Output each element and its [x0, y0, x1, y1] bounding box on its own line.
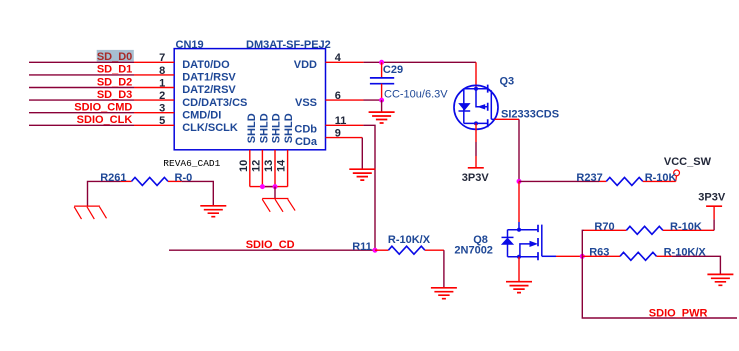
svg-text:13: 13: [263, 160, 275, 172]
svg-text:SDIO_CD: SDIO_CD: [246, 239, 295, 251]
resistor R237 right lead: [643, 180, 676, 182]
wire SDIO_CD: [169, 249, 375, 251]
transistor Q8 source arrow stub: [520, 244, 530, 257]
capacitor C29 top lead: [381, 62, 383, 78]
transistor Q3 gate lead: [491, 118, 494, 120]
svg-text:R11: R11: [352, 241, 372, 253]
transistor Q8 source arrowhead (points right): [530, 241, 539, 247]
wire stub to VCC_SW port: [675, 176, 678, 182]
svg-text:DAT1/RSV: DAT1/RSV: [182, 72, 236, 84]
ground (VSS/C29): [369, 112, 395, 123]
svg-text:VSS: VSS: [295, 97, 317, 109]
net label highlight box SD_D0: [97, 50, 134, 62]
svg-text:CLK/SCLK: CLK/SCLK: [182, 122, 238, 134]
transistor Q3 gate bar: [490, 90, 492, 119]
svg-text:DAT0/DO: DAT0/DO: [182, 59, 230, 71]
svg-text:REVA6_CAD1: REVA6_CAD1: [163, 158, 220, 169]
ground (Q8 source): [506, 282, 532, 293]
transistor Q8 body-diode branch: [507, 230, 509, 257]
wire Q3 gate down to node: [518, 119, 520, 181]
power symbol 3P3V bar (Q3): [468, 167, 484, 169]
svg-text:VCC_SW: VCC_SW: [664, 156, 712, 168]
wire R70 to 3P3V: [713, 219, 715, 230]
svg-text:Q3: Q3: [500, 76, 515, 88]
svg-text:R-10K: R-10K: [645, 172, 677, 184]
wire net SDIO_CLK: [29, 124, 134, 126]
transistor Q3 drain lead: [475, 62, 477, 89]
wire node to Q8 drain: [518, 181, 520, 222]
pin 2 stub: [134, 99, 174, 101]
wire SHLD join: [250, 186, 288, 188]
transistor Q8 channel segments: [537, 225, 539, 261]
wire SDIO_PWR: [582, 256, 737, 318]
resistor R11 right lead: [425, 249, 444, 251]
svg-text:10: 10: [238, 160, 250, 172]
transistor Q8 body diode cathode bar: [502, 236, 514, 238]
resistor R70 left lead: [584, 229, 626, 231]
transistor Q3 channel segments: [487, 85, 489, 128]
wire node to R237: [519, 180, 599, 182]
transistor Q3 gate pin stub: [495, 118, 520, 120]
transistor Q3 body diode cathode bar: [459, 110, 471, 112]
svg-text:SD_D3: SD_D3: [97, 89, 132, 101]
junction node SDIO_CD/R11: [373, 248, 378, 253]
transistor Q8 drain lead: [518, 222, 520, 230]
junction node SHLD pin12: [260, 184, 265, 189]
svg-text:CN19: CN19: [176, 39, 204, 51]
wire net SD_D0: [29, 61, 134, 63]
transistor Q3 body circle: [454, 85, 498, 129]
resistor R11 body: [388, 246, 425, 254]
transistor Q8 gate bar: [541, 225, 543, 257]
pin 7 stub: [134, 61, 174, 63]
wire R261 left to chassis ground: [88, 181, 121, 205]
pin 8 stub: [134, 74, 174, 76]
wire net SD_D2: [29, 87, 134, 89]
resistor R11 left lead: [375, 249, 388, 251]
pin 9 stub (CDa): [326, 137, 363, 139]
svg-text:R63: R63: [589, 247, 609, 259]
svg-text:CMD/DI: CMD/DI: [182, 109, 221, 121]
off-page connector circle VCC_SW: [674, 170, 680, 176]
transistor Q8 internal bottom node: [517, 255, 521, 259]
wire R63 right to ground: [672, 256, 720, 274]
transistor Q3 body diode (down): [458, 103, 470, 111]
pin 14 stub (SHLD): [287, 150, 289, 187]
wire Q3 source mid: [475, 142, 477, 156]
svg-text:R-10K: R-10K: [670, 221, 702, 233]
svg-text:3P3V: 3P3V: [698, 192, 726, 204]
connector CN19 body: [174, 49, 325, 150]
svg-text:CC-10u/6.3V: CC-10u/6.3V: [384, 89, 448, 101]
svg-text:12: 12: [250, 160, 262, 172]
ground (R-0): [200, 206, 226, 217]
svg-text:SHLD: SHLD: [246, 113, 258, 143]
junction node VSS/C29: [379, 98, 384, 103]
wire CDa to ground: [361, 138, 363, 170]
resistor R237 body: [606, 177, 642, 185]
svg-text:2N7002: 2N7002: [454, 244, 493, 256]
wire CDb to SDIO_CD node: [363, 125, 375, 250]
resistor R261 body: [132, 177, 169, 185]
pin 12 stub (SHLD): [261, 150, 263, 187]
pin 11 stub (CDb): [326, 124, 364, 126]
svg-text:SDIO_PWR: SDIO_PWR: [649, 307, 708, 319]
resistor R237 left lead: [599, 180, 606, 182]
wire SHLD to chassis ground: [274, 187, 276, 199]
resistor R70 body: [626, 226, 662, 234]
junction node Q8 gate / R63 / R70 / SDIO_PWR: [580, 254, 585, 259]
pin 13 stub (SHLD): [274, 150, 276, 187]
power symbol 3P3V lead (right): [713, 206, 715, 219]
junction node Q3 gate / Q8 drain / R237: [517, 179, 522, 184]
svg-text:3P3V: 3P3V: [462, 172, 490, 184]
resistor R261 right lead: [168, 180, 182, 182]
svg-text:CDa: CDa: [295, 136, 318, 148]
power symbol 3P3V lead (Q3): [475, 156, 477, 168]
ground (R63): [707, 274, 733, 285]
svg-text:R70: R70: [594, 221, 614, 233]
svg-text:SD_D1: SD_D1: [97, 64, 132, 76]
transistor Q3 internal top bar: [464, 88, 488, 90]
wire VDD net to Q3: [364, 61, 476, 63]
svg-text:SD_D0: SD_D0: [97, 51, 132, 63]
wire R11 right to ground: [443, 250, 445, 288]
svg-text:SHLD: SHLD: [283, 113, 295, 143]
transistor Q3 source lead to power: [475, 123, 477, 142]
svg-text:SI2333CDS: SI2333CDS: [501, 109, 559, 121]
transistor Q3 body-diode branch: [463, 89, 465, 124]
svg-text:DM3AT-SF-PEJ2: DM3AT-SF-PEJ2: [246, 39, 331, 51]
svg-text:SHLD: SHLD: [259, 113, 271, 143]
transistor Q8 internal top bar: [508, 229, 539, 231]
svg-text:R-0: R-0: [175, 172, 193, 184]
transistor Q3 internal bottom node: [474, 121, 478, 125]
svg-text:14: 14: [276, 159, 288, 172]
wire net SD_D1: [29, 74, 134, 76]
wire VSS to ground: [381, 100, 383, 112]
svg-text:CD/DAT3/CS: CD/DAT3/CS: [182, 97, 247, 109]
svg-text:R261: R261: [100, 172, 126, 184]
ground (R11): [431, 288, 457, 299]
pin 3 stub: [134, 112, 174, 114]
svg-text:SDIO_CMD: SDIO_CMD: [74, 102, 132, 114]
junction node SHLD pin13: [273, 184, 278, 189]
pin 10 stub (SHLD): [249, 150, 251, 187]
resistor R261 left lead: [121, 180, 132, 182]
transistor Q8 internal top node: [517, 228, 521, 232]
svg-text:SD_D2: SD_D2: [97, 76, 132, 88]
svg-text:SDIO_CLK: SDIO_CLK: [77, 114, 133, 126]
svg-text:R-10K/X: R-10K/X: [664, 247, 707, 259]
wire SHLD join middle: [262, 186, 275, 188]
svg-text:DAT2/RSV: DAT2/RSV: [182, 84, 236, 96]
wire R261 right to ground: [182, 181, 214, 205]
resistor R63 right lead: [657, 255, 673, 257]
svg-text:C29: C29: [383, 64, 403, 76]
wire node up to R70 row: [582, 230, 584, 256]
transistor Q8 body diode (up): [501, 238, 514, 245]
transistor Q8 gate lead: [542, 255, 556, 257]
transistor Q8 source lead to ground: [518, 257, 520, 282]
pin 6 stub (VSS): [326, 99, 364, 101]
svg-text:CDb: CDb: [294, 123, 317, 135]
wire net SD_D3: [29, 99, 134, 101]
transistor Q3 internal top node: [474, 87, 478, 91]
transistor Q3 source arrowhead (points left): [477, 104, 485, 109]
transistor Q8 gate pin stub: [556, 255, 582, 257]
chassis ground (R261): [74, 206, 106, 219]
pin 1 stub: [134, 87, 174, 89]
pin 4 stub (VDD): [326, 61, 364, 63]
resistor R63 left lead: [582, 255, 620, 257]
transistor Q8 internal bottom bar: [508, 256, 539, 258]
svg-text:R-10K/X: R-10K/X: [388, 234, 431, 246]
ground (CDa): [349, 169, 375, 180]
svg-text:VDD: VDD: [294, 59, 317, 71]
chassis ground (SHLD): [262, 199, 295, 212]
svg-text:R237: R237: [576, 172, 602, 184]
pin 5 stub: [134, 124, 174, 126]
svg-text:SHLD: SHLD: [271, 113, 283, 143]
resistor R70 right lead: [663, 229, 714, 231]
transistor Q3 internal bottom bar: [464, 122, 488, 124]
wire VSS net: [364, 99, 382, 101]
capacitor C29 bottom lead: [381, 84, 383, 100]
transistor Q3 source arrow stub: [476, 89, 488, 107]
power symbol 3P3V bar (right): [706, 205, 722, 207]
wire net SDIO_CMD: [29, 112, 134, 114]
capacitor C29 plates: [370, 78, 394, 84]
resistor R63 body: [620, 252, 656, 260]
junction node VDD/C29: [379, 60, 384, 65]
